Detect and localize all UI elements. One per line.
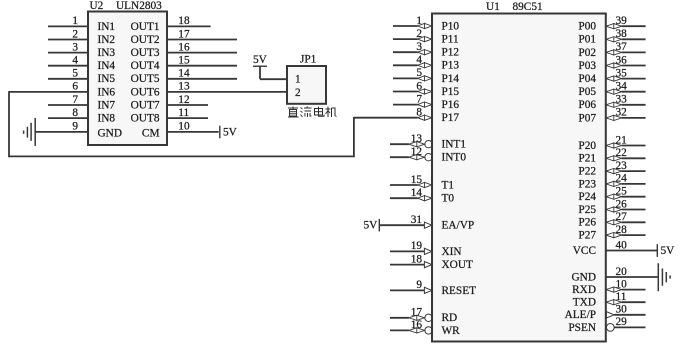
U2 pin number 6 [72,81,78,93]
U1 pin 26 (P25) wire and pin symbol [606,207,646,212]
U1 pin number 12 [411,146,423,158]
svg-text:30: 30 [616,304,628,316]
U1 pin number 18 [411,253,423,265]
U2 pin label OUT2 [131,34,160,46]
U1 pin number 1 [416,15,422,27]
U1 pin 37 (P02) wire and pin symbol [606,50,646,55]
U1 pin number 37 [616,41,628,53]
U1 pin label P27 [578,230,596,242]
U1 pin number 21 [616,134,627,146]
U1 pin number 8 [416,107,422,119]
svg-text:27: 27 [616,211,628,223]
svg-text:24: 24 [616,173,628,185]
U2 pin number 1 [72,15,78,27]
svg-text:2: 2 [72,28,78,40]
svg-text:39: 39 [616,15,628,27]
svg-text:P16: P16 [442,99,460,111]
U1 pin 35 (P04) wire and pin symbol [606,76,646,81]
svg-text:RESET: RESET [442,285,477,297]
U1 pin 16 (WR) wire and pin symbol [390,327,432,334]
U1 pin 10 (RXD) wire and pin symbol [606,287,646,292]
U2 pin number 14 [178,68,190,80]
U1 pin 29 (PSEN) wire and pin symbol [606,324,645,332]
U2 pin number 3 [72,41,78,53]
svg-text:16: 16 [411,319,423,331]
U2 part value label ULN2803 [116,0,162,12]
U1 pin 11 (TXD) wire and pin symbol [606,300,646,305]
U2 pin number 16 [178,41,190,53]
svg-text:21: 21 [616,134,627,146]
svg-text:10: 10 [178,121,190,133]
svg-text:29: 29 [616,316,628,328]
U2 pin label OUT4 [131,60,160,72]
svg-text:6: 6 [72,81,78,93]
U2 pin 2 (IN2) wire [48,39,88,41]
U2 pin 3 (IN3) wire [48,52,88,54]
U2 pin 8 (IN8) wire [48,117,88,119]
svg-text:3: 3 [416,41,422,53]
U1 pin number 15 [411,174,423,186]
U1 pin number 33 [616,94,628,106]
IC U2 ULN2803 body [88,12,167,146]
caption 直流电机 (DC motor) under JP1 [288,107,337,118]
U1 pin label P10 [442,20,460,32]
U1 pin 13 (INT1) wire and pin symbol [390,141,432,148]
U1 pin number 38 [616,28,628,40]
U2 pin 14 (OUT5) wire [167,78,237,80]
svg-text:P27: P27 [578,230,596,242]
svg-text:T1: T1 [442,179,455,191]
svg-text:1: 1 [72,15,78,27]
svg-text:18: 18 [411,253,423,265]
svg-text:13: 13 [411,133,423,145]
U2 pin label GND [98,128,122,140]
svg-text:28: 28 [616,224,628,236]
U1 pin 7 (P16) wire and pin symbol [393,102,432,107]
U1 pin number 31 [411,214,422,226]
svg-text:P25: P25 [578,204,596,216]
U1 part value label 89C51 [513,1,543,13]
U1 pin 8 (P17) wire and pin symbol [418,115,432,120]
U1 pin label P16 [442,99,460,111]
U1 pin number 35 [616,67,628,79]
U2 pin number 10 [178,121,190,133]
ground symbol at U2 GND [24,118,36,146]
U2 pin label OUT3 [131,47,160,59]
U1 pin number 25 [616,186,628,198]
U1 pin number 17 [411,307,423,319]
U1 pin 30 (ALE/P) wire and pin symbol [606,312,645,318]
U1 pin label P20 [578,140,596,152]
U1 pin number 5 [416,67,422,79]
U1 pin number 19 [411,240,423,252]
svg-text:P11: P11 [442,34,459,46]
U1 pin label ALE/P [565,309,596,321]
U2 pin 12 (OUT7) wire [167,104,208,106]
U2 reference designator label [90,0,104,12]
svg-text:P02: P02 [578,47,596,59]
svg-text:EA/VP: EA/VP [442,220,475,232]
U2 pin number 18 [178,15,190,27]
svg-text:P04: P04 [578,73,596,85]
wire into U1 P17 [354,117,418,119]
U1 pin 12 (INT0) wire and pin symbol [390,154,432,161]
U1 pin label P17 [442,112,460,124]
svg-text:CM: CM [142,128,160,140]
U1 pin label RESET [442,285,477,297]
svg-text:PSEN: PSEN [568,322,596,334]
U1 pin label INT0 [442,152,467,164]
svg-text:3: 3 [72,41,78,53]
svg-text:5V: 5V [223,127,238,139]
svg-text:P20: P20 [578,140,596,152]
U1 pin 25 (P24) wire and pin symbol [606,194,646,199]
svg-text:P07: P07 [578,112,596,124]
U1 pin label T0 [442,193,455,205]
U1 pin label RXD [572,284,596,296]
svg-text:IN2: IN2 [98,34,116,46]
U1 pin number 13 [411,133,423,145]
U1 pin 1 (P10) wire and pin symbol [393,23,432,28]
svg-text:6: 6 [416,80,422,92]
U2 pin 18 (OUT1) wire [167,25,211,27]
svg-text:IN3: IN3 [98,47,116,59]
svg-text:OUT7: OUT7 [131,99,160,111]
U1 pin 39 (P00) wire and pin symbol [606,24,646,29]
svg-text:36: 36 [616,54,628,66]
svg-text:P01: P01 [578,34,596,46]
U2 pin label OUT5 [131,73,160,85]
svg-text:GND: GND [572,271,596,283]
U1 pin label EA/VP [442,220,475,232]
svg-text:T0: T0 [442,193,455,205]
svg-text:33: 33 [616,94,628,106]
JP1 pin label 2 [295,87,301,99]
U1 pin number 39 [616,15,628,27]
svg-text:ALE/P: ALE/P [565,309,596,321]
svg-text:11: 11 [178,107,189,119]
U1 pin 18 (XOUT) wire and pin symbol [390,262,432,268]
U1 pin number 24 [616,173,628,185]
IC U1 89C51 body [432,14,606,342]
svg-text:INT0: INT0 [442,152,467,164]
power 5V symbol at U1 EA/VP [364,219,380,232]
svg-text:IN5: IN5 [98,73,116,85]
U2 pin label OUT6 [131,86,160,98]
U1 pin 31 (EA/VP) wire and pin symbol [379,222,432,228]
U1 pin label XIN [442,246,462,258]
U1 pin label P22 [578,166,596,178]
svg-text:OUT6: OUT6 [131,86,160,98]
U1 pin 5 (P14) wire and pin symbol [393,76,432,81]
svg-text:IN7: IN7 [98,99,116,111]
svg-text:P00: P00 [578,21,596,33]
U2 pin number 15 [178,55,190,67]
svg-text:RD: RD [442,312,458,324]
U2 pin label CM [142,128,160,140]
svg-text:JP1: JP1 [300,53,316,65]
svg-text:P10: P10 [442,20,460,32]
U1 pin number 22 [616,147,628,159]
svg-text:P14: P14 [442,73,460,85]
svg-text:P03: P03 [578,60,596,72]
JP1 reference designator label [300,53,316,65]
U1 pin 32 (P07) wire and pin symbol [606,115,646,120]
U2 pin label IN1 [98,21,116,33]
U1 pin 40 (VCC) wire and pin symbol [606,250,657,252]
U1 pin 38 (P01) wire and pin symbol [606,37,646,42]
U2 pin 5 (IN5) wire [48,78,88,80]
U2 pin 6 (IN6) wire [9,91,88,93]
U1 pin number 20 [616,266,628,278]
U1 pin number 23 [616,160,628,172]
wire right vertical up to P17 [353,117,355,157]
U2 pin 16 (OUT3) wire [167,52,237,54]
U2 pin 13 (OUT6) wire [167,91,287,93]
svg-text:OUT3: OUT3 [131,47,160,59]
ground symbol at U1 GND [658,263,670,291]
U2 pin number 13 [178,81,190,93]
svg-text:40: 40 [616,239,628,251]
U1 pin number 40 [616,239,628,251]
U1 pin number 7 [416,93,422,105]
U1 pin 17 (RD) wire and pin symbol [390,314,432,321]
U1 pin label TXD [573,297,596,309]
U1 pin label P13 [442,60,460,72]
U1 pin number 30 [616,304,628,316]
svg-text:89C51: 89C51 [513,1,543,13]
wire left vertical (IN6 net) [8,91,10,157]
U2 pin label OUT7 [131,99,160,111]
svg-text:OUT5: OUT5 [131,73,160,85]
svg-text:WR: WR [442,325,461,337]
svg-text:U2: U2 [90,0,104,12]
svg-text:12: 12 [178,94,190,106]
svg-text:P12: P12 [442,47,460,59]
U1 pin label P25 [578,204,596,216]
U1 pin label P06 [578,99,596,111]
U2 pin number 2 [72,28,78,40]
U2 pin number 12 [178,94,190,106]
svg-text:22: 22 [616,147,628,159]
U1 pin 6 (P15) wire and pin symbol [393,89,432,94]
svg-text:34: 34 [616,81,628,93]
U1 pin 9 (RESET) wire and pin symbol [390,287,432,293]
U2 pin number 9 [72,121,78,133]
U1 pin 23 (P22) wire and pin symbol [606,169,646,174]
svg-text:OUT8: OUT8 [131,113,160,125]
U1 pin label P05 [578,86,596,98]
svg-text:XIN: XIN [442,246,462,258]
U1 pin label P21 [578,153,596,165]
U1 pin label P01 [578,34,596,46]
svg-text:12: 12 [411,146,423,158]
U1 reference designator label [486,1,500,13]
U1 pin number 32 [616,107,628,119]
svg-text:4: 4 [416,54,422,66]
U2 pin label IN6 [98,86,116,98]
svg-text:19: 19 [411,240,423,252]
svg-text:IN6: IN6 [98,86,116,98]
U1 pin 36 (P03) wire and pin symbol [606,63,646,68]
svg-text:OUT1: OUT1 [131,21,160,33]
U1 pin label P03 [578,60,596,72]
U1 pin 4 (P13) wire and pin symbol [393,63,432,68]
U2 pin number 17 [178,28,190,40]
svg-text:XOUT: XOUT [442,259,473,271]
svg-text:RXD: RXD [572,284,596,296]
svg-text:14: 14 [178,68,190,80]
svg-text:P13: P13 [442,60,460,72]
svg-text:VCC: VCC [573,245,596,257]
svg-text:5V: 5V [661,245,676,257]
U1 pin number 9 [416,279,422,291]
svg-text:31: 31 [411,214,422,226]
U2 pin 15 (OUT4) wire [167,65,237,67]
svg-text:5: 5 [416,67,422,79]
U1 pin label PSEN [568,322,596,334]
svg-text:OUT4: OUT4 [131,60,160,72]
svg-text:9: 9 [416,279,422,291]
U2 pin label IN4 [98,60,116,72]
svg-text:23: 23 [616,160,628,172]
U1 pin 19 (XIN) wire and pin symbol [390,248,432,254]
svg-text:OUT2: OUT2 [131,34,160,46]
svg-text:10: 10 [616,278,628,290]
svg-text:38: 38 [616,28,628,40]
U2 pin number 8 [72,107,78,119]
U1 pin label P00 [578,21,596,33]
U1 pin label T1 [442,179,455,191]
svg-text:P24: P24 [578,191,596,203]
U1 pin number 2 [416,28,422,40]
U1 pin number 4 [416,54,422,66]
U1 pin 24 (P23) wire and pin symbol [606,181,646,186]
U2 pin 17 (OUT2) wire [167,39,237,41]
svg-text:25: 25 [616,186,628,198]
U2 pin 7 (IN7) wire [48,104,88,106]
svg-text:P05: P05 [578,86,596,98]
svg-text:IN8: IN8 [98,113,116,125]
svg-text:7: 7 [416,93,422,105]
svg-text:U1: U1 [486,1,500,13]
svg-text:IN1: IN1 [98,21,116,33]
U1 pin label INT1 [442,139,466,151]
U1 pin number 28 [616,224,628,236]
U1 pin label P14 [442,73,460,85]
svg-text:1: 1 [295,74,301,86]
U1 pin label P15 [442,86,460,98]
U1 pin 28 (P27) wire and pin symbol [606,233,646,238]
U1 pin label VCC [573,245,596,257]
power 5V symbol at U2 CM pin [220,126,238,139]
U1 pin label P07 [578,112,596,124]
svg-text:16: 16 [178,41,190,53]
U2 pin label IN5 [98,73,116,85]
U1 pin 2 (P11) wire and pin symbol [393,37,432,42]
svg-text:1: 1 [416,15,422,27]
U2 pin label OUT8 [131,113,160,125]
U1 pin 20 (GND) wire and pin symbol [606,276,658,278]
U1 pin number 10 [616,278,628,290]
U2 pin label IN3 [98,47,116,59]
svg-text:15: 15 [411,174,423,186]
U1 pin number 27 [616,211,628,223]
svg-text:P22: P22 [578,166,596,178]
svg-text:2: 2 [295,87,301,99]
svg-text:17: 17 [178,28,190,40]
svg-text:P21: P21 [578,153,596,165]
svg-text:INT1: INT1 [442,139,466,151]
svg-text:11: 11 [616,291,627,303]
U1 pin 15 (T1) wire and pin symbol [390,182,432,187]
U1 pin 22 (P21) wire and pin symbol [606,156,646,161]
svg-text:5V: 5V [364,220,379,232]
U1 pin number 36 [616,54,628,66]
svg-text:35: 35 [616,67,628,79]
svg-text:26: 26 [616,198,628,210]
U1 pin label P02 [578,47,596,59]
U1 pin label P12 [442,47,460,59]
U1 pin label WR [442,325,461,337]
U1 pin label P04 [578,73,596,85]
U1 pin 27 (P26) wire and pin symbol [606,220,646,225]
U1 pin label P23 [578,178,596,190]
svg-text:4: 4 [72,55,78,67]
U1 pin label RD [442,312,458,324]
svg-text:7: 7 [72,94,78,106]
svg-text:P23: P23 [578,178,596,190]
svg-text:IN4: IN4 [98,60,116,72]
U1 pin 33 (P06) wire and pin symbol [606,102,646,107]
U1 pin number 6 [416,80,422,92]
U1 pin number 29 [616,316,628,328]
U2 pin 10 (CM) wire [167,131,219,133]
U2 pin 9 GND wire to ground [35,131,88,133]
U1 pin 14 (T0) wire and pin symbol [390,196,432,201]
svg-text:P26: P26 [578,217,596,229]
U1 pin number 34 [616,81,628,93]
U1 pin number 16 [411,319,423,331]
svg-text:15: 15 [178,55,190,67]
svg-text:5V: 5V [253,54,268,66]
svg-text:17: 17 [411,307,423,319]
power 5V symbol above JP1 [253,54,268,66]
wire bottom horizontal (IN6 to P17 net) [8,155,354,157]
svg-text:P17: P17 [442,112,460,124]
U2 pin label IN8 [98,113,116,125]
svg-text:9: 9 [72,121,78,133]
svg-text:ULN2803: ULN2803 [116,0,162,12]
U2 pin label IN7 [98,99,116,111]
U2 pin 4 (IN4) wire [48,65,88,67]
U2 pin label OUT1 [131,21,160,33]
U2 pin number 11 [178,107,189,119]
connector JP1 body [287,66,326,104]
svg-text:18: 18 [178,15,190,27]
svg-text:32: 32 [616,107,628,119]
svg-text:5: 5 [72,68,78,80]
U1 pin label P24 [578,191,596,203]
U2 pin 11 (OUT8) wire [167,117,208,119]
U1 pin number 3 [416,41,422,53]
U1 pin 34 (P05) wire and pin symbol [606,89,646,94]
svg-text:GND: GND [98,128,122,140]
power 5V symbol at U1 VCC [657,244,675,257]
U1 pin label P11 [442,34,459,46]
U1 pin 21 (P20) wire and pin symbol [606,143,646,148]
svg-text:14: 14 [411,187,423,199]
